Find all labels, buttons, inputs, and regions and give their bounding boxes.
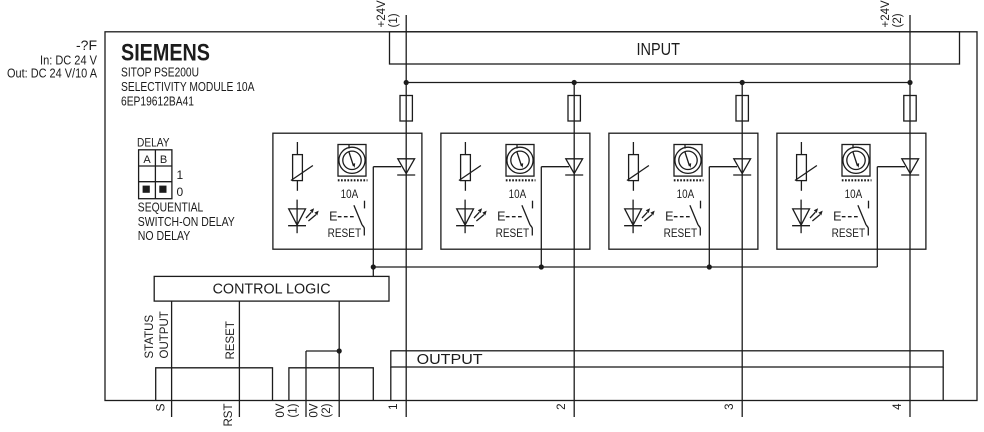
svg-text:E: E [329,210,337,224]
svg-text:10A: 10A [677,187,695,201]
junction node 0V [337,348,342,353]
wire: sense bus into control logic [372,267,374,276]
wire: bus to fuse F2 [573,83,575,96]
DIP switch position B=0 (black square) [159,186,166,193]
svg-text:SELECTIVITY MODULE 10A: SELECTIVITY MODULE 10A [121,80,255,94]
svg-text:B: B [160,154,167,166]
sense wire channel 4 to control logic bus [877,166,905,168]
wire: bus to fuse F4 [909,83,911,96]
svg-text:In: DC 24 V: In: DC 24 V [40,54,98,68]
adjustable resistor R3 [632,142,634,155]
current setting rotary dial S4 [842,145,870,177]
svg-text:RESET: RESET [328,228,362,240]
svg-text:DELAY: DELAY [137,136,170,150]
electronic breaker channel block 4 [777,133,926,249]
svg-text:SWITCH-ON DELAY: SWITCH-ON DELAY [138,215,236,229]
svg-text:NO DELAY: NO DELAY [138,229,191,243]
output diode D2 [566,159,583,174]
sense bus junction node ch3 [707,264,712,269]
svg-text:0V: 0V [275,403,287,417]
status LED D1a [296,200,298,234]
svg-text:0: 0 [177,185,184,199]
svg-text:10A: 10A [509,187,527,201]
svg-text:(1): (1) [388,13,400,27]
svg-text:(2): (2) [892,13,904,27]
supply wire +24V (2) [909,15,911,83]
svg-text:3: 3 [724,404,736,410]
status LED D2a [464,200,466,234]
svg-text:S: S [154,404,168,412]
wire: status output S [171,301,173,417]
DIP switch table S1 (A/B) [139,150,172,199]
wire: bus to fuse F3 [741,83,743,96]
sense wire channel 1 to control logic bus [373,166,401,168]
sense bus junction node ch2 [539,264,544,269]
current setting rotary dial S2 [506,145,534,177]
svg-text:10A: 10A [845,187,863,201]
svg-text:(2): (2) [321,403,333,417]
input bus wire [406,82,910,84]
fuse F2 [568,96,580,122]
svg-text:STATUS: STATUS [144,315,156,359]
wire: bus to fuse F1 [405,83,407,96]
svg-text:SIEMENS: SIEMENS [121,40,210,67]
svg-text:RESET: RESET [496,228,529,240]
svg-text:4: 4 [892,403,904,410]
input bus junction node 3 [740,80,745,85]
current setting rotary dial S3 [674,145,702,177]
svg-text:INPUT: INPUT [637,39,681,59]
input bus junction node 4 [907,80,912,85]
svg-text:CONTROL LOGIC: CONTROL LOGIC [213,281,331,298]
svg-text:+24V: +24V [376,0,388,28]
fuse F3 [736,96,748,122]
wire: 0V (2) from control logic [338,301,340,417]
output diode D3 [734,159,751,174]
svg-text:A: A [143,154,151,166]
adjustable resistor R1 [296,142,298,155]
svg-text:Out: DC 24 V/10 A: Out: DC 24 V/10 A [7,67,98,81]
wire: reset input RST [238,301,240,417]
svg-text:2: 2 [556,404,568,410]
module housing outline -?F [105,32,977,401]
input bus junction node 1 [404,80,409,85]
housing terminal notch middle [289,368,373,401]
svg-text:(1): (1) [288,403,300,417]
wire: fuse F4 down through channel to terminal 4 [909,121,911,417]
status LED D4a [800,200,802,234]
status LED D3a [632,200,634,234]
svg-text:-?F: -?F [76,37,97,53]
svg-text:+24V: +24V [880,0,892,28]
fuse F1 [400,96,412,122]
fuse F4 [904,96,916,122]
sense wire channel 2 to control logic bus [541,166,569,168]
wire: fuse F3 down through channel to terminal 3 [741,121,743,417]
svg-text:RST: RST [223,404,235,427]
svg-text:SEQUENTIAL: SEQUENTIAL [138,201,204,215]
svg-text:SITOP PSE200U: SITOP PSE200U [121,66,199,80]
svg-text:E: E [833,210,841,224]
housing terminal notch left [156,368,273,401]
sense bus wire to control logic [373,266,877,268]
svg-text:10A: 10A [341,187,359,201]
svg-text:RESET: RESET [832,228,866,240]
svg-text:6EP19612BA41: 6EP19612BA41 [121,95,194,109]
svg-text:1: 1 [388,404,400,410]
sense bus junction node ch1 [371,264,376,269]
supply wire +24V (1) [405,15,407,83]
wire: fuse F1 down through channel to terminal 1 [405,121,407,417]
wire: fuse F2 down through channel to terminal 2 [573,121,575,417]
svg-text:1: 1 [177,168,184,182]
output diode D4 [902,159,919,174]
wire: 0V (1) terminal [305,351,307,417]
adjustable resistor R2 [464,142,466,155]
OUTPUT terminal box [391,351,943,367]
svg-text:0V: 0V [309,403,321,417]
electronic breaker channel block 1 [273,133,422,249]
svg-text:E: E [665,210,673,224]
wire: 0V link [306,350,339,352]
electronic breaker channel block 2 [441,133,590,249]
sense wire channel 3 to control logic bus [709,166,737,168]
input bus junction node 2 [572,80,577,85]
CONTROL LOGIC box U1 [154,276,389,301]
svg-text:RESET: RESET [664,228,698,240]
output diode D1 [398,159,415,174]
INPUT terminal box [390,32,960,64]
svg-text:OUTPUT: OUTPUT [159,311,171,358]
svg-text:OUTPUT: OUTPUT [417,352,483,368]
adjustable resistor R4 [800,142,802,155]
electronic breaker channel block 3 [609,133,758,249]
svg-text:RESET: RESET [225,321,237,359]
current setting rotary dial S1 [338,145,366,177]
svg-text:E: E [497,210,505,224]
DIP switch position A=0 (black square) [143,186,150,193]
